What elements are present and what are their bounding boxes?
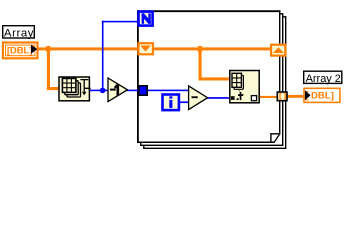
wire: branch down to Index Array array input	[199, 49, 230, 81]
function decrement (-1)	[108, 78, 127, 102]
wire: Array Size output to decrement input (blue scalar)	[90, 90, 109, 92]
svg-text:Array 2: Array 2	[306, 73, 341, 85]
node: junction on array wire above Index Array	[197, 46, 203, 52]
wire: branch down to Array Size input	[47, 49, 59, 91]
wire: decrement output to blue tunnel	[127, 90, 138, 92]
label Array 2	[304, 71, 342, 85]
wire: subtract output to Index Array index input	[207, 97, 230, 99]
for-loop folded corner flap	[271, 133, 280, 142]
svg-text:[DBL]: [DBL]	[7, 46, 32, 57]
svg-text:DBL]: DBL]	[311, 90, 334, 101]
wire: Array control through left shift register to right shift register (thick orange array wire)	[37, 47, 271, 50]
wire: junction up and right to N terminal	[102, 21, 138, 91]
node: junction on array wire above Array Size	[45, 46, 51, 52]
for-loop main border	[137, 10, 280, 143]
svg-text:Array: Array	[4, 28, 34, 40]
left shift register (down arrow)	[138, 43, 153, 54]
for-loop page 2 (middle sheet)	[141, 14, 283, 146]
label Array	[3, 26, 35, 40]
terminal N (loop count)	[139, 12, 153, 26]
wire: blue tunnel to subtract x input	[147, 90, 189, 92]
indicator terminal Array 2 [DBL]	[304, 88, 340, 102]
tunnel: blue count tunnel on left border	[139, 86, 147, 95]
wire: Index Array element output to output tunnel (thin orange)	[259, 96, 277, 98]
right shift register (up arrow)	[271, 45, 285, 56]
for-loop page 3 (back sheet)	[144, 17, 286, 149]
wire: i terminal to subtract y input	[180, 101, 190, 103]
tunnel: output auto-index tunnel on right border	[277, 92, 287, 101]
node: junction on count wire	[100, 88, 106, 94]
terminal i (iteration)	[163, 95, 179, 111]
control terminal Array [DBL]	[3, 43, 38, 59]
function Array Size	[59, 77, 91, 101]
wire: output tunnel to Array 2 indicator	[288, 95, 304, 98]
function subtract	[189, 86, 208, 110]
function Index Array	[230, 71, 259, 103]
